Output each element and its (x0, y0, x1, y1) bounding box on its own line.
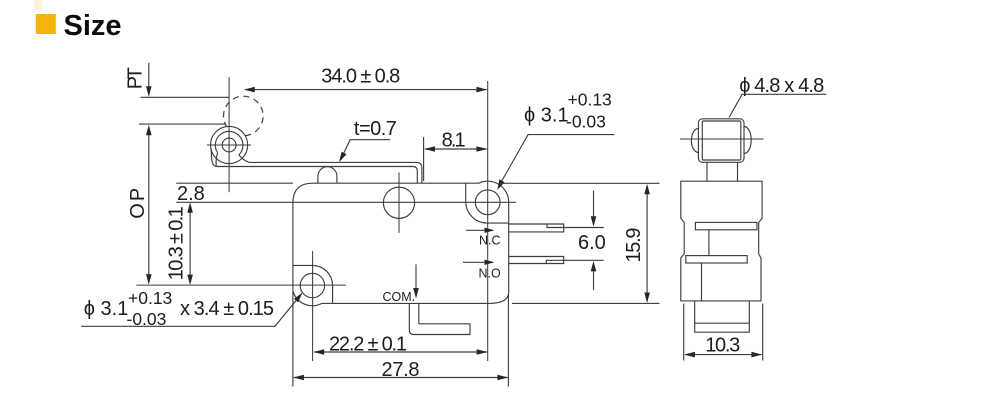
svg-text:COM.: COM. (383, 290, 416, 304)
free position line (141, 96, 230, 98)
svg-text:N.O: N.O (479, 267, 502, 281)
svg-text:6.0: 6.0 (578, 232, 606, 254)
side roller right flange (744, 127, 751, 154)
plunger dome (318, 167, 337, 183)
OP dimension arrows (148, 130, 150, 279)
dim 10.3 extension lines (683, 304, 685, 361)
27.8 extension lines (292, 292, 294, 387)
roller vertical centerline (228, 77, 230, 192)
PT arrow (148, 63, 150, 90)
lever strap around roller (215, 131, 243, 155)
N.C terminal blade (509, 224, 564, 232)
side roller outer (698, 119, 744, 163)
bottom-left hole vertical centerline / 22.2 left extension (312, 251, 314, 361)
svg-text:Size: Size (64, 10, 122, 42)
side roller left flange (691, 128, 698, 152)
svg-text:N.C: N.C (479, 234, 501, 248)
dim 15.9 extension lines (500, 182, 660, 184)
strap right leg to lever (239, 155, 250, 163)
svg-text:+0.13: +0.13 (128, 288, 172, 308)
svg-text:t=0.7: t=0.7 (354, 118, 397, 140)
bottom-left hole (300, 273, 324, 297)
side body outline (681, 181, 762, 301)
side internal line 1 (708, 230, 710, 256)
long vertical centerline through top-right hole (487, 81, 489, 361)
svg-text:15.9: 15.9 (623, 228, 645, 263)
top-center hole (383, 187, 414, 218)
bottom-left hole horizontal centerline (136, 284, 346, 286)
side roller inner (702, 121, 741, 160)
svg-text:ϕ 3.1: ϕ 3.1 (524, 105, 569, 127)
dashed circle (free position roller) (224, 96, 264, 136)
top-center hole centerline (398, 172, 400, 232)
svg-text:34.0 ± 0.8: 34.0 ± 0.8 (321, 66, 400, 88)
side slot 1 (695, 222, 757, 229)
top-right hole boss line (466, 183, 509, 223)
N.O terminal blade (509, 257, 564, 264)
roller foot outer edge (211, 149, 218, 167)
svg-text:8.1: 8.1 (442, 130, 466, 152)
dim 6.0 arrows (593, 191, 595, 221)
COM terminal blade (409, 303, 470, 334)
leader phi 4.8 (729, 94, 826, 117)
body outline (293, 181, 509, 306)
roller outer circle (211, 126, 248, 163)
svg-text:10.3 ± 0.1: 10.3 ± 0.1 (165, 206, 187, 280)
side slot 2 (686, 256, 747, 263)
side internal line 2 (701, 263, 703, 301)
svg-text:ϕ 3.1: ϕ 3.1 (84, 298, 129, 320)
leader bottom-left hole (81, 295, 300, 327)
svg-text:2.8: 2.8 (177, 183, 205, 205)
svg-text:ϕ 4.8 x 4.8: ϕ 4.8 x 4.8 (739, 75, 824, 97)
operating position line (139, 123, 226, 125)
svg-text:-0.03: -0.03 (566, 111, 606, 131)
dim 27.8 line (294, 377, 508, 379)
N.O label + arrow (463, 261, 490, 263)
dim 10.3 line (685, 354, 761, 356)
upper holes centerline (176, 201, 516, 203)
roller horizontal centerline (207, 144, 251, 146)
svg-text:OP: OP (127, 188, 149, 219)
roller hub circle (222, 138, 236, 152)
side roller centerline (680, 138, 764, 140)
dim 34.0 line (245, 89, 487, 91)
dim 15.9 line (646, 188, 648, 299)
dim 8.1 line (425, 148, 487, 150)
svg-text:+0.13: +0.13 (568, 90, 612, 110)
top-right hole (475, 190, 500, 215)
side bottom boss line (695, 322, 750, 324)
lever top edge with right bend (250, 162, 422, 183)
title square (36, 14, 56, 34)
strap left leg (216, 153, 218, 166)
bottom-left hole boss line (293, 265, 333, 303)
dim 8.1 tick (423, 137, 425, 181)
top edge extension line (left) (176, 182, 293, 184)
N.C label + arrow (466, 229, 490, 231)
faint yellow artifact above title square (35, 0, 43, 11)
svg-text:10.3: 10.3 (705, 334, 740, 356)
lever bottom edge with right bend (218, 167, 418, 183)
dim 22.2 line (314, 351, 487, 353)
svg-text:PT: PT (125, 67, 147, 89)
dim 6.0 extension lines (564, 227, 604, 229)
side lever stem (707, 162, 738, 181)
svg-text:x 3.4 ± 0.15: x 3.4 ± 0.15 (180, 298, 274, 320)
side bottom boss (695, 301, 750, 332)
